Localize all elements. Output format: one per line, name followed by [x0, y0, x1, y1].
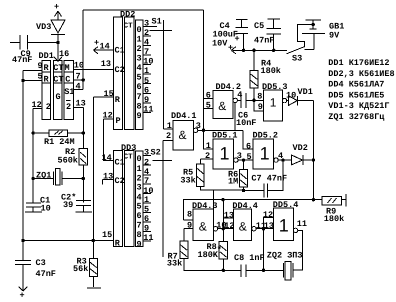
capacitor C1 10 with ground bar [25, 196, 51, 214]
left oscillator rail down to C1 [32, 133, 34, 203]
svg-text:VD1: VD1 [298, 87, 313, 97]
DD2 P pin 12 wire [103, 111, 114, 121]
svg-text:C5: C5 [254, 21, 264, 31]
svg-text:180k: 180k [324, 214, 344, 224]
svg-text:CT: CT [53, 75, 63, 85]
plus rail with left arrow [228, 43, 287, 54]
diode VD3 [36, 20, 65, 43]
svg-text:47nF: 47nF [36, 269, 56, 279]
svg-text:3: 3 [196, 121, 201, 131]
svg-text:11: 11 [297, 219, 307, 229]
DD1 pin 13 wire down to R1 [73, 98, 85, 133]
svg-text:6: 6 [246, 142, 251, 152]
svg-text:39: 39 [63, 200, 73, 210]
right rail VD1 to R9 junction [312, 101, 314, 200]
DD2 R rail from pin 15 down to bottom wire [92, 97, 94, 241]
svg-text:&: & [179, 128, 187, 142]
DD3 digits 0-9 [137, 154, 142, 249]
svg-text:9: 9 [258, 102, 263, 112]
battery GB1 9V [302, 20, 345, 50]
DD4.4 output wire to DD5.4 pin 13 [256, 221, 274, 231]
svg-text:CT: CT [124, 22, 134, 31]
svg-text:3: 3 [144, 148, 149, 158]
svg-text:2: 2 [66, 102, 71, 112]
capacitor C7 47nF [244, 174, 288, 198]
svg-text:VD2: VD2 [293, 143, 308, 153]
svg-text:R: R [115, 95, 121, 105]
resistor R2 560k [58, 133, 88, 203]
DD4.1 output wire to dot and onward [198, 129, 243, 132]
DD1 pin 7 wire [73, 72, 83, 82]
svg-text:VD3: VD3 [36, 22, 51, 32]
gate DD5.3 (NOR) [262, 82, 296, 121]
svg-text:7: 7 [137, 221, 142, 231]
gate DD5.4 (NOR) [273, 200, 307, 241]
svg-text:5: 5 [247, 152, 252, 162]
svg-text:C8 1nF: C8 1nF [234, 253, 265, 263]
wire C6/R4 to DD5.3 pin 8 [252, 91, 263, 102]
wire pin 16 into DD1 with down arrow [39, 43, 70, 62]
svg-text:0: 0 [137, 25, 142, 35]
svg-text:2: 2 [46, 102, 51, 112]
resistor R8 180K* [198, 229, 228, 272]
DD5.4 pin 12 detour [263, 210, 274, 229]
svg-text:180K: 180K [198, 250, 219, 260]
svg-text:+: + [54, 2, 59, 12]
gate DD4.1 (NAND) [163, 111, 201, 150]
svg-text:15: 15 [102, 230, 112, 240]
plus supply arrow above VD3 [54, 2, 62, 20]
diode VD1 [287, 87, 314, 105]
svg-text:&: & [239, 220, 247, 234]
svg-text:33k: 33k [167, 259, 182, 269]
DD1 pin 9 wire [23, 61, 43, 71]
svg-text:6: 6 [144, 214, 149, 224]
resistor R3 56k with ground [73, 239, 101, 288]
svg-text:2: 2 [144, 157, 149, 167]
DD1 pin 4 wire [73, 82, 83, 92]
wire battery top to S3 contact [298, 23, 315, 47]
DD1 pin 5 wire [23, 72, 43, 82]
svg-text:2: 2 [166, 131, 171, 141]
svg-text:R: R [44, 75, 50, 85]
DD4.3 output wire to dot / DD4.4 pin 12 [218, 221, 235, 231]
svg-text:DD4 К561ЛА7: DD4 К561ЛА7 [328, 79, 384, 89]
svg-text:S2: S2 [151, 147, 161, 157]
crystal ZQ1 32768Hz [31, 169, 85, 185]
DD4.2 output riser down to DD4.1 output wire [234, 103, 236, 131]
svg-text:5: 5 [137, 202, 142, 212]
svg-text:CT: CT [53, 63, 63, 73]
capacitor C9 [10, 35, 58, 65]
svg-text:5: 5 [144, 76, 149, 86]
svg-text:1: 1 [144, 66, 149, 76]
svg-text:0: 0 [137, 154, 142, 164]
DD1 pin 10 label and wire to DD2 C2 [73, 61, 113, 71]
svg-text:DD5 К561ЛЕ5: DD5 К561ЛЕ5 [328, 90, 384, 100]
svg-text:1: 1 [270, 96, 277, 110]
svg-text:G: G [56, 92, 61, 102]
svg-text:14: 14 [102, 153, 112, 163]
svg-text:C: C [65, 75, 70, 85]
svg-text:12: 12 [224, 221, 234, 231]
top bus wire from DD1 pins 7/4 to DD4.2 riser [82, 10, 204, 90]
svg-text:2: 2 [137, 44, 142, 54]
svg-text:S3: S3 [292, 54, 302, 64]
svg-text:DD2,3 К561ИЕ8: DD2,3 К561ИЕ8 [328, 69, 394, 79]
svg-text:M: M [65, 63, 70, 73]
DD2 C1 pin 14 with +14 arrow [93, 38, 113, 54]
svg-text:5: 5 [206, 101, 211, 111]
capacitor C2* 39 with ground bar [61, 193, 92, 213]
svg-text:C2: C2 [115, 65, 125, 75]
svg-text:C1: C1 [115, 46, 125, 56]
parts list text [328, 58, 394, 122]
svg-text:DD1: DD1 [39, 51, 54, 61]
svg-text:56k: 56k [73, 264, 88, 274]
switch S2 [151, 141, 173, 258]
node junction at VD3/C9/pin16 [56, 41, 59, 44]
svg-text:13: 13 [224, 210, 234, 220]
svg-text:S1: S1 [152, 17, 162, 27]
svg-text:11: 11 [143, 233, 153, 243]
svg-text:11: 11 [143, 104, 153, 114]
capacitor C6 10nF [236, 93, 256, 128]
svg-text:10: 10 [41, 204, 51, 214]
svg-text:R1 24M: R1 24M [44, 137, 75, 147]
DD3 C1 pin 14 wire [102, 153, 112, 163]
svg-text:+: + [235, 34, 240, 44]
gate DD5.2 (NOR) [246, 130, 283, 169]
svg-text:4: 4 [137, 63, 142, 73]
svg-text:S1: S1 [64, 87, 74, 97]
svg-text:&: & [199, 220, 207, 234]
svg-text:1M: 1M [228, 176, 238, 186]
wire DD5.2 pin6 from DD4.1 output [243, 130, 253, 149]
svg-text:R: R [115, 239, 121, 249]
svg-text:9: 9 [187, 221, 192, 231]
svg-text:+: + [94, 38, 99, 48]
capacitor C4 100uF 10V [212, 20, 248, 51]
DD2 P rail from pin 12 to DD3 C1 [103, 119, 113, 160]
resistor R4 180k [250, 50, 281, 100]
svg-text:7: 7 [144, 176, 149, 186]
svg-text:4: 4 [144, 38, 149, 48]
svg-text:47nF: 47nF [12, 55, 32, 65]
svg-text:*: * [217, 245, 222, 255]
svg-text:560k: 560k [58, 156, 78, 166]
svg-text:6: 6 [206, 91, 211, 101]
svg-text:33k: 33k [180, 175, 195, 185]
capacitor C3 47nF with plus arrow down [15, 241, 56, 301]
svg-text:1: 1 [137, 35, 142, 45]
resistor R9 180k [322, 194, 346, 224]
svg-text:8: 8 [187, 210, 192, 220]
svg-text:DD4.4: DD4.4 [232, 201, 258, 211]
left bus wire from pin9 down to bottom wire [21, 71, 24, 241]
svg-text:1: 1 [137, 164, 142, 174]
svg-text:3: 3 [137, 183, 142, 193]
svg-text:2: 2 [144, 28, 149, 38]
riser from top bus to DD4.2 inputs [203, 10, 205, 130]
resistor R6 1M [228, 160, 247, 192]
svg-text:13: 13 [264, 221, 274, 231]
svg-text:1: 1 [260, 144, 270, 164]
wire DD5.4 node down to bottom wire [263, 229, 265, 271]
svg-text:VD1-3 КД521Г: VD1-3 КД521Г [328, 101, 389, 111]
svg-text:16: 16 [59, 49, 69, 59]
svg-text:5: 5 [137, 73, 142, 83]
svg-text:C2: C2 [115, 176, 125, 186]
svg-text:8: 8 [257, 91, 262, 101]
switch S3 lever [287, 47, 305, 64]
resistor R7 33k [167, 228, 223, 270]
svg-text:DD5.4: DD5.4 [273, 200, 299, 210]
DD3 output pin stubs 3,2,4,7,10,1,5,6,9,11 [143, 148, 154, 243]
svg-text:3: 3 [237, 151, 242, 161]
svg-text:8: 8 [137, 101, 142, 111]
svg-text:ZQ1 32768Гц: ZQ1 32768Гц [328, 112, 384, 122]
svg-text:13: 13 [101, 59, 111, 69]
svg-text:10: 10 [74, 61, 84, 71]
svg-text:10: 10 [143, 57, 153, 67]
svg-text:P: P [116, 116, 121, 126]
DD5.1 output wire to DD5.2 pin 5 [238, 152, 253, 162]
svg-text:C1: C1 [115, 158, 125, 168]
resistor R1 24M [31, 130, 85, 147]
DD5.2 output wire to VD2 and down to C7 [267, 158, 285, 190]
svg-text:9V: 9V [329, 30, 340, 40]
capacitor C5 47nF [254, 19, 281, 50]
IC DD3 K561IE8 body [114, 143, 143, 249]
svg-text:9: 9 [137, 239, 142, 249]
svg-text:DD1 К176ИЕ12: DD1 К176ИЕ12 [328, 58, 389, 68]
capacitor C8 1nF [223, 253, 265, 277]
svg-text:+: + [20, 291, 25, 301]
resistor R5 33k [180, 159, 213, 190]
riser from R5 wire down to DD4.3 output [212, 190, 214, 227]
svg-text:10nF: 10nF [236, 118, 256, 128]
piezo ZQ2 [264, 251, 303, 280]
gate DD5.1 (NOR) [200, 130, 242, 169]
svg-text:4: 4 [76, 82, 81, 92]
DD2 output pin stubs 3,2,4,7,10,1,5,6,9,11 [143, 19, 157, 115]
svg-text:C3: C3 [36, 258, 46, 268]
svg-text:1: 1 [144, 195, 149, 205]
DD3 C2 pin 13 stub [103, 171, 114, 184]
svg-text:6: 6 [137, 82, 142, 92]
svg-text:180k: 180k [261, 66, 281, 76]
wire B: DD4.3 net to R9 [184, 198, 323, 220]
svg-text:DD4.1: DD4.1 [171, 111, 197, 121]
svg-text:47nF: 47nF [254, 36, 274, 46]
switch S1 [149, 17, 172, 130]
svg-text:1: 1 [220, 144, 230, 164]
DD2 R pin 15 wire [93, 89, 113, 99]
svg-text:ZQ1: ZQ1 [36, 171, 51, 181]
gate DD4.2 (NAND) [204, 82, 243, 119]
svg-text:1: 1 [279, 216, 289, 236]
svg-text:9: 9 [137, 111, 142, 121]
diode VD2 [285, 143, 315, 165]
svg-text:12: 12 [263, 210, 273, 220]
IC DD1 K176IE12 body (three columns) [42, 60, 74, 119]
svg-text:C7 47nF: C7 47nF [251, 174, 287, 184]
gate DD4.3 (NAND) [184, 201, 227, 240]
bottom wire from bus to DD3 R pin15 [21, 230, 113, 242]
R5 wire continues to R6 node [213, 189, 243, 191]
svg-text:CT: CT [124, 153, 134, 162]
DD1 pin 12 wire down to R1 [32, 100, 43, 133]
gate DD4.4 (NAND) [232, 201, 266, 240]
svg-text:ZQ2 ЗПЗ: ZQ2 ЗПЗ [267, 251, 303, 261]
DD5.4 output wire down to ZQ2 [293, 230, 303, 270]
riser wire B to DD4.3 out dot, DD4.4 pin13 [223, 200, 234, 229]
IC DD2 K561IE8 body [114, 10, 143, 130]
svg-text:9: 9 [38, 61, 43, 71]
DD5.3 pin 9 detour wire [254, 100, 264, 112]
DD2 digits 0-9 [137, 25, 142, 121]
svg-text:&: & [218, 99, 226, 113]
svg-text:3: 3 [137, 54, 142, 64]
svg-text:7: 7 [137, 92, 142, 102]
svg-text:10V: 10V [212, 38, 228, 48]
svg-text:R: R [44, 63, 50, 73]
